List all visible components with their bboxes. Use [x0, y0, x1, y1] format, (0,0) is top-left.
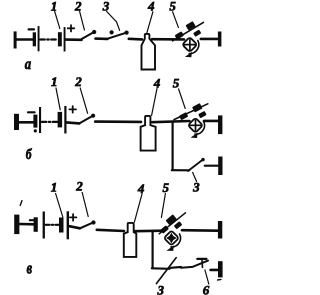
- leader to label 4 row2: [152, 89, 157, 116]
- svg-text:4: 4: [137, 181, 145, 196]
- leader to label 5 row2: [179, 89, 186, 108]
- battery cell 1 row3: short thick plate: [34, 217, 38, 232]
- svg-text:4: 4: [147, 0, 155, 13]
- battery cell 1 row3: long thin plate: [43, 212, 45, 239]
- switch 3 row3: fixed contact dash: [171, 266, 181, 269]
- compass body row3: rounded diamond: [164, 231, 179, 246]
- wire row3: bottom horizontal: [152, 267, 170, 270]
- battery cell 2 row1: short thick negative plate: [58, 32, 62, 46]
- svg-text:5: 5: [169, 0, 176, 13]
- plus sign row1: [68, 25, 75, 31]
- battery cell 1 row1: short thick negative plate: [33, 32, 36, 46]
- wire row1: battery to switch 2: [66, 38, 82, 41]
- wire row1: switch 3 to vessel 4: [129, 37, 142, 40]
- leader to label 4 row3: [134, 194, 142, 222]
- vessel (vial) 4 row3: [124, 223, 137, 257]
- switch 3 row1: fixed contact dot: [110, 30, 114, 34]
- magnetic needle 5 row1: pivot line: [173, 22, 204, 40]
- leader to label 2 row3: [82, 193, 88, 217]
- switch 3 row1: open arm: [106, 33, 126, 40]
- battery cell 2 row3: short thick plate: [59, 218, 64, 233]
- battery cell 1 row1: long thin positive plate: [38, 26, 40, 51]
- svg-text:3: 3: [192, 180, 200, 195]
- battery cell 1 row2: short thick plate: [33, 115, 37, 128]
- wire row3: battery to switch 2: [69, 226, 80, 228]
- rotation arrowhead row2: [191, 133, 198, 138]
- leader to label 3 row1: [107, 11, 120, 30]
- needle blob 1 row2: [179, 112, 188, 120]
- leader to label 5 row1: [173, 12, 179, 28]
- vessel (vial) 4 row2: [141, 116, 156, 151]
- battery cell 2 row1: long thin positive plate: [64, 27, 66, 51]
- key 6 row3: T handle top bar: [197, 258, 206, 260]
- wire row2: vessel 4 to junction and needle: [152, 121, 190, 122]
- wire row2: stub to bottom right terminal: [205, 165, 218, 167]
- wire row3: switch 2 to vessel 4: [97, 230, 124, 231]
- rotation arrow row1: [189, 41, 199, 54]
- terminal left row1: [14, 31, 17, 48]
- terminal right row2: [218, 115, 222, 134]
- battery cell 2 row3: long thin plate: [67, 211, 69, 239]
- switch 2 row2: arm tip blob: [91, 114, 95, 118]
- svg-text:4: 4: [153, 75, 161, 90]
- wire row3: terminal to battery: [19, 223, 34, 226]
- switch 2 row1: arm tip blob: [92, 30, 96, 34]
- wire row2: bottom horizontal to switch 3: [172, 169, 189, 171]
- switch 2 row3: arm tip blob: [91, 220, 95, 224]
- leader to label 1 row1: [55, 11, 60, 28]
- terminal bottom right row3: [218, 261, 223, 277]
- wire row1: terminal to battery: [16, 38, 33, 41]
- wire dash-dot link between cells row3: [46, 224, 59, 226]
- svg-text:5: 5: [163, 180, 170, 195]
- wire dash-dot link between cells row1: [40, 38, 57, 40]
- terminal right row1: [218, 32, 222, 47]
- leader to label 3 row2: [193, 172, 197, 181]
- rotation arrowhead row3: [166, 245, 174, 251]
- svg-text:б: б: [26, 146, 32, 163]
- vessel (vial) 4 row1: [142, 34, 156, 70]
- wire dash-dot link between cells row2: [42, 121, 58, 123]
- needle blob 2 row2: [192, 103, 203, 112]
- wire row3: vessel 4 to needle and right terminal: [135, 229, 163, 232]
- svg-text:а: а: [25, 56, 31, 74]
- svg-text:3: 3: [157, 283, 165, 295]
- rotation arrow row3: [171, 234, 181, 247]
- svg-text:2: 2: [74, 74, 82, 89]
- rotation arrow row2: [195, 121, 205, 134]
- svg-text:1: 1: [51, 74, 58, 89]
- plus sign row2: [69, 106, 76, 112]
- compass cross row1: [184, 40, 195, 50]
- needle blob 1 row3: [160, 225, 169, 234]
- needle blob 1 row1: [175, 31, 184, 39]
- compass cross row2: [190, 120, 201, 130]
- wire row1: between switch 2 and switch 3: [96, 37, 108, 40]
- wire row2: branch down from junction: [172, 122, 174, 169]
- switch 3 row3: arm crossing (with leader to label): [156, 258, 176, 284]
- switch 2 row2: nearly closed arm: [79, 116, 93, 124]
- magnetic needle 5 row2: pivot line: [174, 104, 208, 120]
- minus sign row2: [28, 111, 35, 113]
- svg-text:2: 2: [75, 179, 83, 194]
- wire row3: needle to right terminal: [182, 229, 218, 232]
- switch 2 row3: nearly closed arm: [79, 223, 93, 229]
- compass body row1: rounded diamond: [182, 37, 197, 52]
- svg-text:2: 2: [74, 0, 82, 13]
- battery cell 2 row2: long thin plate: [64, 106, 66, 134]
- terminal left row2: [14, 114, 19, 130]
- minus sign row1: [29, 28, 34, 30]
- svg-text:5: 5: [173, 75, 180, 90]
- svg-text:1: 1: [51, 179, 58, 194]
- terminal bottom right row2: [218, 157, 222, 176]
- wire row2: switch 2 to vessel 4: [95, 120, 141, 123]
- switch 2 row1: open knife arm: [80, 32, 94, 40]
- wire row2: compass to right terminal: [204, 120, 218, 123]
- needle blob 3 row1: [193, 30, 201, 37]
- switch 3 row2: open arm: [188, 160, 203, 171]
- leader to label 2 row2: [80, 88, 87, 113]
- compass body row2: rounded diamond: [188, 118, 203, 133]
- svg-text:3: 3: [102, 0, 110, 13]
- switch 3 row2: arm tip blob: [201, 158, 204, 161]
- leader to label 1 row3: [56, 194, 63, 218]
- needle blob 2 row3: [166, 214, 178, 225]
- wire row3: stub to bottom right terminal: [211, 269, 218, 272]
- leader to label 6 row3: [205, 270, 209, 284]
- magnetic needle 5 row3: pivot line: [159, 213, 185, 234]
- minus sign row3: [30, 219, 36, 221]
- plus sign row3: [70, 214, 77, 221]
- battery cell 1 row2: long thin plate: [39, 107, 41, 133]
- svg-text:6: 6: [203, 283, 210, 295]
- wire row2: terminal to battery: [19, 121, 34, 124]
- svg-text:в: в: [27, 260, 33, 278]
- wire row3: branch down after vessel: [152, 232, 154, 269]
- small mark bottom right row3: [218, 278, 221, 281]
- needle blob 3 row2: [198, 111, 207, 118]
- needle blob 3 row3: [174, 221, 183, 229]
- terminal right row3: [218, 221, 222, 239]
- compass cross row3: [166, 233, 177, 244]
- battery cell 2 row2: short thick plate: [58, 112, 63, 128]
- terminal left row3: [14, 215, 19, 235]
- rotation arrowhead row1: [185, 52, 192, 57]
- wire row2: battery to switch 2: [67, 122, 80, 123]
- key 6 row3: T handle stem: [201, 259, 204, 267]
- leader to label 4 row1: [147, 12, 153, 33]
- leader to label 5 row3: [161, 194, 165, 218]
- wire row3: link rising to key 6: [181, 261, 208, 268]
- stray tick mark row3: [20, 201, 22, 206]
- switch 3 row1: arm tip blob: [125, 30, 129, 34]
- wire row1: vessel 4 to needle 5: [152, 38, 184, 41]
- leader to label 2 row1: [80, 11, 85, 30]
- ink speck below cell 1 row2: [34, 129, 37, 132]
- needle blob 2 row1: [185, 21, 195, 30]
- svg-text:1: 1: [51, 0, 58, 13]
- leader to label 1 row2: [56, 88, 60, 110]
- wire row1: compass to right terminal: [201, 38, 218, 41]
